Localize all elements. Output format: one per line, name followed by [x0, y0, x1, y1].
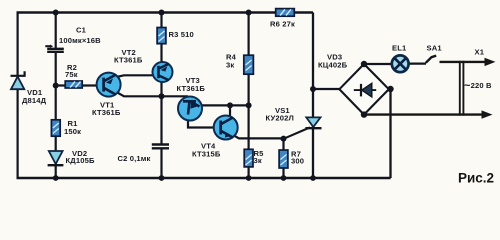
- junction R4 bottom node: [246, 102, 252, 108]
- wire bridge left corner: [313, 88, 341, 90]
- svg-text:3к: 3к: [254, 156, 262, 165]
- wire VS1 column: [312, 13, 314, 179]
- svg-text:C1: C1: [76, 26, 87, 35]
- wire C1 column lower: [55, 51, 57, 178]
- wire R7 column: [282, 138, 284, 178]
- junction bridge bottom node: [361, 111, 367, 117]
- svg-text:КТ361Б: КТ361Б: [92, 108, 121, 117]
- wire VT3 to VT4 base: [188, 112, 226, 128]
- zener diode VD1: [11, 71, 25, 89]
- capacitor C2: [152, 145, 169, 149]
- switch SA1: [426, 56, 436, 63]
- transistor VT4: [214, 116, 238, 140]
- arrow top mains: [485, 58, 496, 66]
- resistor R6: [276, 9, 295, 17]
- svg-text:R6 27к: R6 27к: [270, 20, 295, 29]
- wire C2 column upper: [160, 96, 162, 144]
- junction bridge left node: [310, 86, 316, 92]
- wire lamp to switch: [408, 62, 426, 64]
- wire top rail: [17, 11, 314, 13]
- wire VT3 base stub: [186, 96, 188, 101]
- svg-text:X1: X1: [475, 48, 485, 57]
- junction R7 rail: [281, 175, 287, 181]
- resistor R4: [244, 55, 254, 74]
- junction VS1 rail: [310, 175, 316, 181]
- svg-text:SA1: SA1: [427, 44, 443, 53]
- junction R2 tap: [53, 83, 59, 89]
- wire VS1 gate: [284, 127, 311, 138]
- svg-text:КТ361Б: КТ361Б: [114, 56, 143, 65]
- wire VT3 collector row: [190, 105, 249, 106]
- svg-text:3к: 3к: [226, 61, 234, 70]
- svg-text:75к: 75к: [65, 70, 78, 79]
- wire VT4 collector: [226, 105, 230, 127]
- svg-text:Д814Д: Д814Д: [22, 96, 47, 105]
- junction VT4 collector node: [227, 102, 233, 108]
- svg-text:КТ361Б: КТ361Б: [177, 84, 206, 93]
- junction R7 top node: [281, 136, 287, 142]
- svg-text:Рис.2: Рис.2: [458, 171, 494, 186]
- svg-text:КТ315Б: КТ315Б: [192, 150, 221, 159]
- junction R4 top rail: [246, 10, 252, 16]
- svg-text:КУ202Л: КУ202Л: [266, 114, 294, 123]
- capacitor C1: [45, 45, 64, 52]
- junction R3 top rail: [159, 10, 165, 16]
- diode bridge VD3: [339, 64, 388, 115]
- svg-text:КД105Б: КД105Б: [66, 156, 95, 165]
- wire bottom mains row: [364, 113, 485, 115]
- wire C1 column upper: [55, 13, 57, 49]
- junction R5 rail: [246, 175, 252, 181]
- junction C2 rail: [159, 175, 165, 181]
- junction bridge right node: [387, 86, 393, 92]
- wire VT4 emitter row: [226, 128, 284, 139]
- svg-text:КЦ402Б: КЦ402Б: [318, 61, 348, 70]
- transistor VT2: [153, 62, 173, 82]
- transistor VT3: [178, 97, 202, 121]
- wire bridge right column: [389, 89, 391, 178]
- resistor R2: [65, 81, 82, 88]
- junction C1 top rail: [53, 10, 59, 16]
- wire R2 row: [56, 84, 98, 86]
- wire VT1 emitter row: [109, 85, 188, 97]
- wire top mains row: [440, 61, 488, 63]
- junction bridge top node: [361, 61, 367, 67]
- svg-text:100мк×16В: 100мк×16В: [59, 36, 101, 45]
- resistor R1: [51, 120, 60, 136]
- wire VT1 to VT2 base: [109, 75, 155, 84]
- wire bridge top to lamp: [364, 63, 392, 65]
- svg-text:300: 300: [291, 157, 304, 166]
- resistor R3: [157, 28, 166, 44]
- wire R3 VT2 column: [160, 13, 162, 97]
- resistor R7: [279, 150, 288, 168]
- svg-text:EL1: EL1: [392, 44, 407, 53]
- diode VD2: [48, 151, 64, 165]
- junction VD2 rail: [53, 175, 59, 181]
- junction VT2 emitter node: [159, 93, 165, 99]
- svg-text:~220 В: ~220 В: [464, 80, 492, 92]
- thyristor VS1: [305, 117, 321, 128]
- svg-text:150к: 150к: [64, 127, 81, 136]
- transistor VT1: [97, 73, 121, 97]
- terminal X1 double bar: [460, 61, 464, 116]
- svg-text:C2 0,1мк: C2 0,1мк: [118, 154, 151, 163]
- resistor R5: [244, 149, 253, 167]
- wire R4 R5 column: [248, 13, 250, 179]
- wire bottom rail: [17, 177, 391, 180]
- wire C2 column lower: [160, 149, 162, 178]
- lamp EL1: [392, 55, 409, 72]
- svg-text:R3 510: R3 510: [169, 30, 194, 39]
- arrow bottom mains: [482, 110, 493, 118]
- wire left column: [17, 13, 19, 179]
